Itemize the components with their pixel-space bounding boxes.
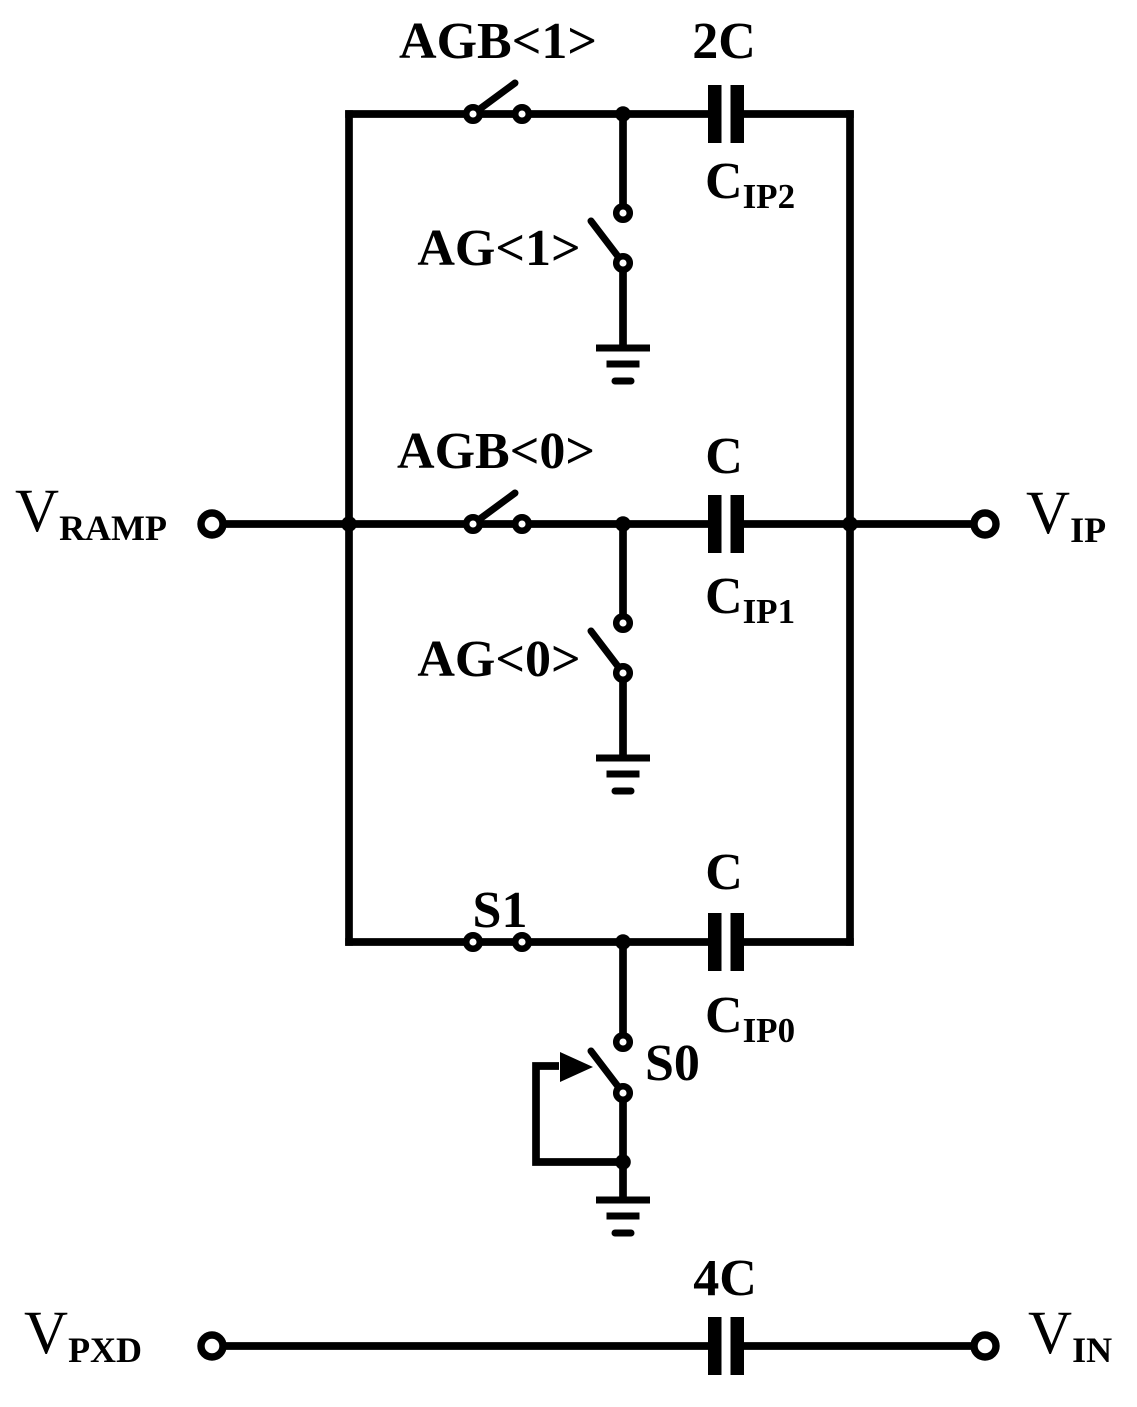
terminal V_PXD bbox=[201, 1335, 223, 1357]
ground for AG<1> bbox=[596, 348, 650, 381]
svg-text:S1: S1 bbox=[473, 882, 528, 939]
arrowhead of S0 control bbox=[560, 1052, 593, 1082]
wire top branch horizontal bbox=[345, 110, 708, 118]
switch AGB<1> bbox=[466, 83, 529, 121]
capacitor C_IP1 (C) bbox=[708, 495, 744, 553]
svg-text:CIP2: CIP2 bbox=[705, 153, 795, 216]
svg-text:C: C bbox=[705, 428, 743, 485]
node V_RAMP rail junction bbox=[341, 516, 357, 532]
wire node S0G to ground bbox=[619, 1162, 627, 1200]
svg-text:CIP0: CIP0 bbox=[705, 987, 795, 1050]
svg-text:2C: 2C bbox=[692, 13, 756, 70]
svg-text:VPXD: VPXD bbox=[24, 1300, 142, 1370]
wire middle branch from terminal to left rail bbox=[222, 520, 353, 528]
svg-text:AG<0>: AG<0> bbox=[417, 631, 580, 688]
svg-text:VRAMP: VRAMP bbox=[15, 478, 167, 548]
wire node to switch S0 bbox=[619, 942, 627, 1042]
wire top branch cap to right rail bbox=[744, 110, 854, 118]
svg-text:VIN: VIN bbox=[1028, 1300, 1112, 1370]
svg-text:4C: 4C bbox=[693, 1250, 757, 1307]
terminal V_IP bbox=[974, 513, 996, 535]
wire middle branch cap to right rail bbox=[744, 520, 850, 528]
node right rail middle junction bbox=[842, 516, 858, 532]
switch S1 (closed) bbox=[466, 935, 529, 949]
switch S0 bbox=[591, 1035, 630, 1100]
node bottom branch junction bbox=[615, 934, 631, 950]
svg-text:VIP: VIP bbox=[1026, 480, 1106, 550]
capacitor C_IP0 (C) bbox=[708, 913, 744, 971]
capacitor 4C bbox=[708, 1317, 744, 1375]
node S0G junction dot bbox=[615, 1154, 631, 1170]
wire middle branch right rail to terminal bbox=[850, 520, 975, 528]
switch AGB<0> bbox=[466, 493, 529, 531]
wire right rail vertical bbox=[846, 110, 854, 946]
wire switch S0 to node S0G bbox=[619, 1093, 627, 1162]
svg-text:AGB<0>: AGB<0> bbox=[397, 423, 595, 480]
wire node to switch AG<0> bbox=[619, 524, 627, 623]
svg-text:S0: S0 bbox=[645, 1035, 700, 1092]
wire S0 feedback loop bbox=[536, 1066, 623, 1162]
svg-text:CIP1: CIP1 bbox=[705, 568, 795, 631]
switch AG<0> bbox=[591, 616, 630, 680]
node middle branch junction bbox=[615, 516, 631, 532]
wire switch AG<0> to ground bbox=[619, 673, 627, 758]
wire middle branch left rail to cap bbox=[349, 520, 708, 528]
svg-text:AG<1>: AG<1> bbox=[417, 220, 580, 277]
ground for AG<0> bbox=[596, 758, 650, 791]
wire switch AG<1> to ground bbox=[619, 263, 627, 348]
ground for S0 bbox=[596, 1200, 650, 1233]
wire left rail vertical bbox=[345, 110, 353, 946]
wire node to switch AG<1> bbox=[619, 114, 627, 213]
svg-text:C: C bbox=[705, 844, 743, 901]
terminal V_IN bbox=[974, 1335, 996, 1357]
capacitor C_IP2 (2C) bbox=[708, 85, 744, 143]
switch AG<1> bbox=[591, 206, 630, 270]
wire bottom branch cap to right rail bbox=[744, 938, 854, 946]
node at top branch junction bbox=[615, 106, 631, 122]
svg-text:AGB<1>: AGB<1> bbox=[399, 13, 597, 70]
wire bottom row cap to V_IN bbox=[744, 1342, 975, 1350]
terminal V_RAMP bbox=[201, 513, 223, 535]
wire bottom branch horizontal bbox=[345, 938, 708, 946]
wire bottom row V_PXD to cap bbox=[222, 1342, 708, 1350]
